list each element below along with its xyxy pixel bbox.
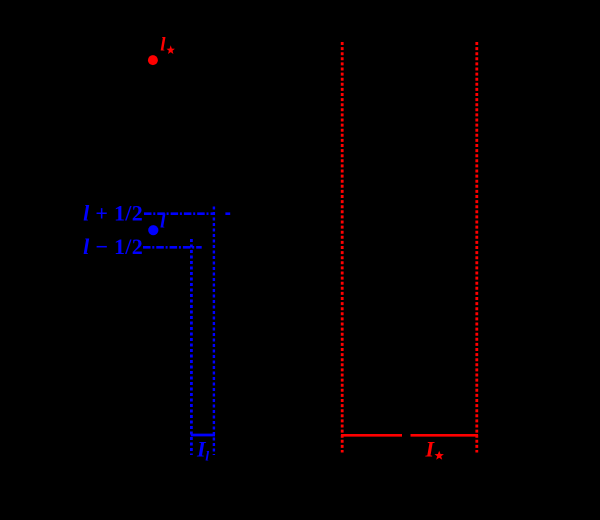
- svg-text:I: I: [425, 437, 436, 462]
- svg-text:l: l: [205, 450, 209, 465]
- svg-text:l: l: [160, 35, 166, 56]
- svg-text:l: l: [160, 211, 166, 233]
- svg-text:l + 1/2: l + 1/2: [83, 200, 143, 225]
- svg-text:l − 1/2: l − 1/2: [83, 234, 143, 259]
